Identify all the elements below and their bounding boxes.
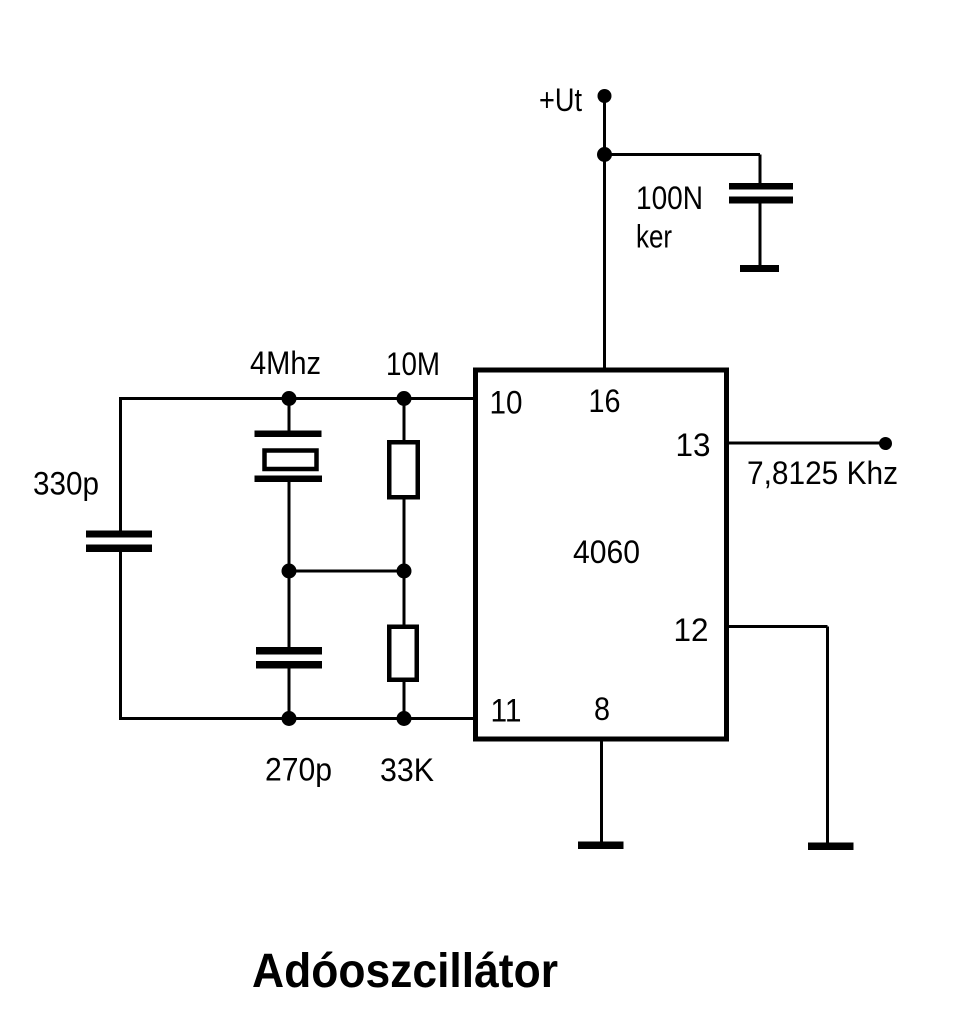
- junction bottom 33K: [397, 711, 412, 726]
- wire bottom rail pin 11: [121, 717, 475, 720]
- wire +Ut down to pin 16: [603, 96, 606, 368]
- capacitor C 330p: [86, 531, 152, 553]
- svg-text:+Ut: +Ut: [539, 82, 582, 118]
- junction R 10M top: [397, 391, 412, 406]
- svg-text:10: 10: [490, 385, 523, 421]
- wire junction to C 100N: [605, 153, 761, 156]
- svg-text:16: 16: [589, 383, 621, 419]
- resistor R 10M: [389, 399, 418, 572]
- wire mid link: [289, 570, 404, 573]
- svg-text:11: 11: [491, 693, 522, 729]
- svg-text:Adóoszcillátor: Adóoszcillátor: [252, 945, 558, 998]
- svg-text:12: 12: [674, 612, 709, 648]
- wire pin 12 horizontal: [728, 625, 828, 628]
- svg-text:8: 8: [594, 691, 610, 727]
- svg-text:ker: ker: [636, 219, 672, 255]
- node +Ut terminal dot: [598, 89, 612, 103]
- junction +Ut rail: [597, 147, 612, 162]
- junction mid 10M/33K: [397, 564, 412, 579]
- crystal X1 4Mhz: [255, 431, 323, 483]
- ground (pin 12): [808, 843, 854, 851]
- wire top rail pin 10: [121, 397, 475, 400]
- wire left rail lower: [119, 552, 122, 720]
- junction bottom 270p: [282, 711, 297, 726]
- wire pin 13 output: [728, 442, 886, 445]
- wire 270p top stub: [288, 571, 291, 648]
- node output terminal dot: [879, 437, 892, 450]
- wire crystal bottom stub: [288, 482, 291, 571]
- wire left rail upper: [119, 397, 122, 531]
- junction mid crystal: [282, 564, 297, 579]
- junction crystal top: [282, 391, 297, 406]
- wire pin 8: [600, 739, 603, 842]
- svg-text:4Mhz: 4Mhz: [250, 345, 321, 381]
- wire down to C 100N top plate: [759, 155, 762, 185]
- ground (100N): [740, 265, 779, 272]
- capacitor C 270p: [256, 647, 322, 669]
- svg-text:7,8125 Khz: 7,8125 Khz: [747, 455, 898, 491]
- svg-text:10M: 10M: [386, 346, 440, 382]
- resistor R 33K: [389, 571, 417, 719]
- svg-text:100N: 100N: [636, 180, 703, 216]
- svg-text:13: 13: [676, 427, 711, 463]
- wire pin 12 vertical: [826, 627, 829, 844]
- svg-text:4060: 4060: [573, 534, 640, 570]
- svg-text:270p: 270p: [265, 752, 332, 788]
- wire C 100N to ground: [759, 204, 762, 269]
- capacitor 100N ker: [729, 183, 793, 204]
- IC U1 4060 body: [476, 370, 727, 739]
- svg-text:330p: 330p: [33, 466, 99, 502]
- wire crystal top stub: [288, 399, 291, 432]
- ground (pin 8): [578, 842, 624, 850]
- wire 270p bottom stub: [288, 669, 291, 719]
- svg-text:33K: 33K: [380, 752, 434, 788]
